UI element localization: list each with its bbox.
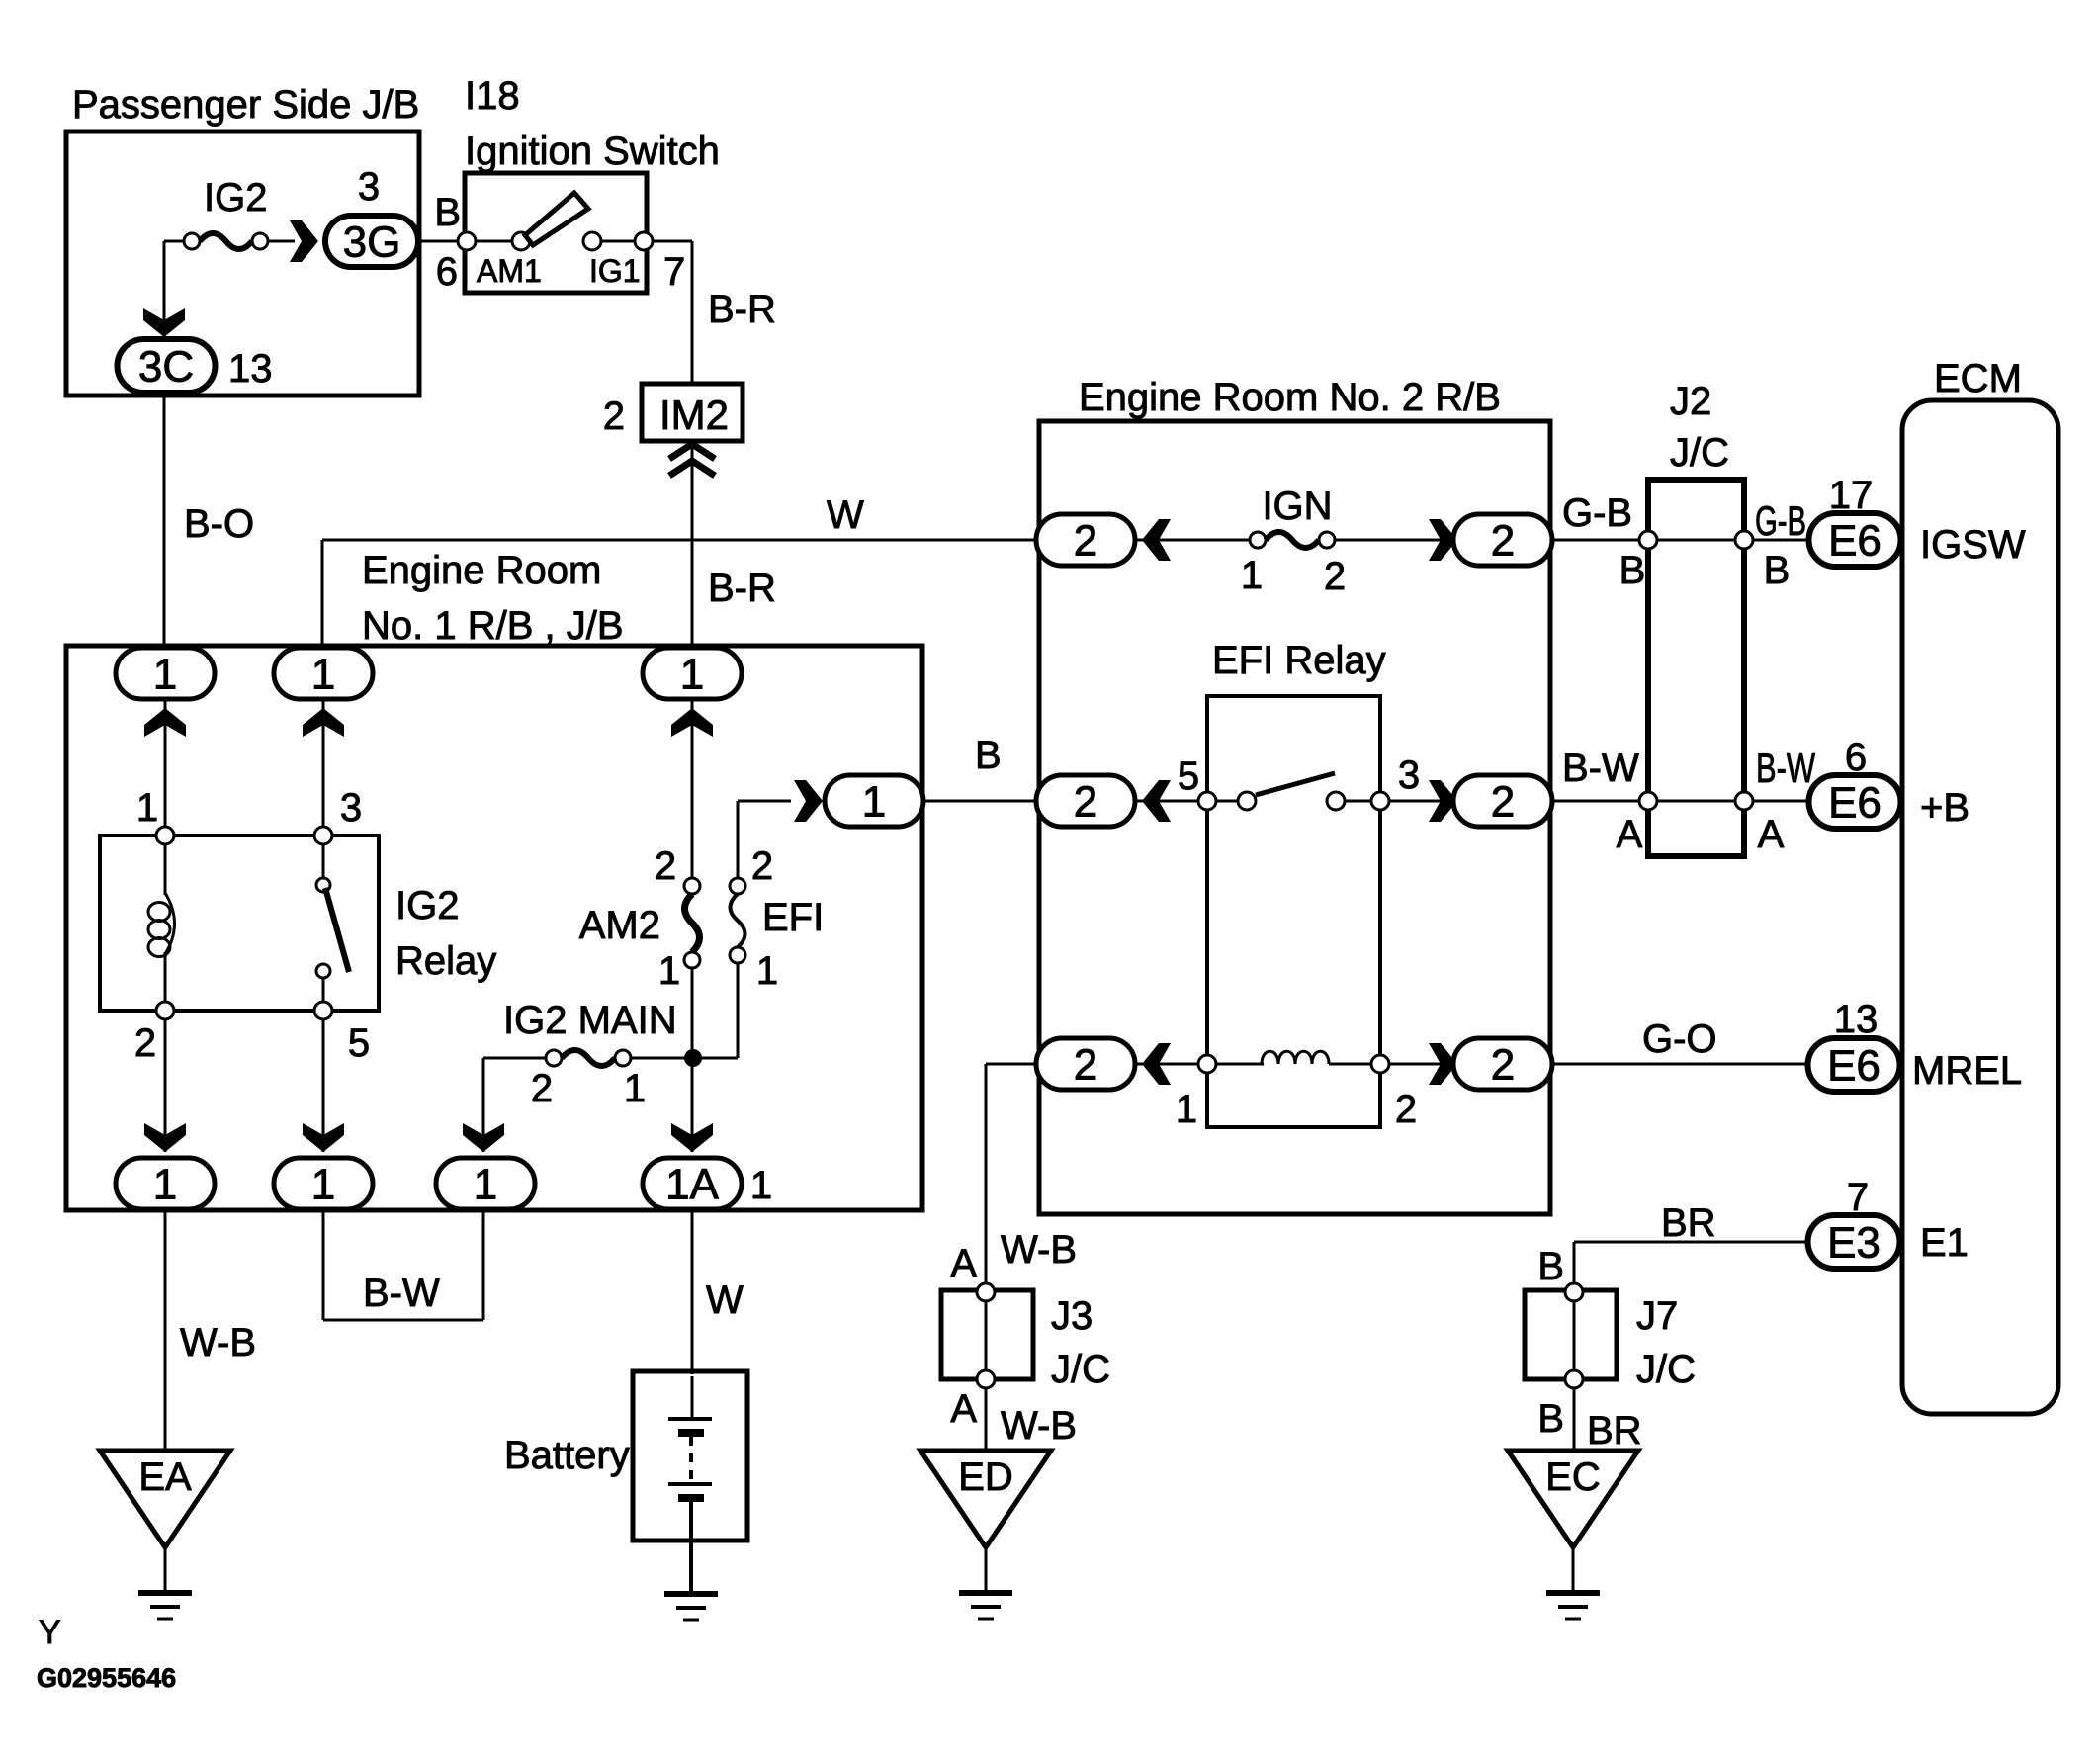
svg-text:1: 1 (756, 949, 778, 993)
svg-text:3: 3 (340, 786, 362, 830)
svg-text:13: 13 (1834, 998, 1879, 1041)
svg-text:6: 6 (436, 250, 458, 294)
svg-text:1: 1 (136, 786, 158, 830)
svg-text:W-B: W-B (1001, 1228, 1077, 1272)
svg-text:G-O: G-O (1642, 1017, 1717, 1061)
svg-text:MREL: MREL (1912, 1049, 2022, 1093)
svg-text:B-W: B-W (1562, 747, 1639, 790)
svg-text:7: 7 (663, 250, 685, 294)
svg-text:AM1: AM1 (477, 253, 542, 289)
svg-text:2: 2 (1324, 555, 1346, 598)
svg-text:1: 1 (153, 1161, 177, 1209)
svg-text:B: B (434, 191, 461, 234)
svg-text:IGN: IGN (1262, 484, 1332, 528)
svg-text:ED: ED (958, 1455, 1013, 1499)
svg-text:W-B: W-B (1001, 1404, 1077, 1448)
svg-text:IG1: IG1 (589, 253, 641, 289)
svg-text:2: 2 (1074, 517, 1097, 566)
svg-text:BR: BR (1587, 1409, 1642, 1453)
svg-text:W: W (706, 1278, 744, 1322)
svg-text:EC: EC (1545, 1455, 1601, 1499)
svg-text:No. 1 R/B , J/B: No. 1 R/B , J/B (362, 604, 624, 648)
svg-text:B: B (1764, 549, 1791, 592)
svg-text:2: 2 (531, 1067, 553, 1110)
svg-text:2: 2 (1491, 778, 1515, 827)
svg-text:2: 2 (1491, 517, 1515, 566)
svg-text:I18: I18 (465, 74, 520, 118)
svg-text:J/C: J/C (1670, 431, 1729, 475)
svg-text:3: 3 (1398, 753, 1420, 797)
svg-text:1: 1 (311, 651, 335, 699)
svg-text:A: A (950, 1242, 977, 1285)
svg-text:J/C: J/C (1636, 1348, 1696, 1391)
svg-text:5: 5 (1178, 754, 1199, 798)
svg-text:1: 1 (311, 1161, 335, 1209)
svg-text:2: 2 (1491, 1041, 1515, 1090)
svg-text:2: 2 (1395, 1088, 1417, 1131)
svg-text:EA: EA (138, 1455, 192, 1499)
svg-text:B: B (1537, 1397, 1564, 1441)
svg-text:2: 2 (1074, 778, 1097, 827)
svg-text:1: 1 (658, 949, 680, 993)
svg-text:J2: J2 (1670, 380, 1711, 423)
svg-text:1: 1 (1241, 554, 1263, 597)
svg-text:1A: 1A (665, 1161, 719, 1209)
svg-text:B-O: B-O (184, 502, 254, 546)
svg-text:Engine Room No. 2 R/B: Engine Room No. 2 R/B (1079, 376, 1501, 419)
svg-text:J/C: J/C (1051, 1348, 1110, 1391)
svg-text:ECM: ECM (1934, 357, 2022, 400)
svg-text:EFI Relay: EFI Relay (1212, 639, 1386, 682)
svg-text:2: 2 (655, 844, 676, 888)
svg-text:Y: Y (39, 1614, 61, 1651)
svg-text:3: 3 (358, 165, 380, 209)
svg-text:IG2: IG2 (204, 176, 267, 220)
svg-text:E6: E6 (1828, 779, 1881, 828)
svg-text:B-W: B-W (1756, 745, 1815, 791)
svg-text:W-B: W-B (180, 1321, 256, 1365)
svg-text:IG2: IG2 (395, 884, 459, 927)
svg-text:3G: 3G (343, 219, 401, 267)
svg-text:1: 1 (153, 651, 177, 699)
svg-text:EFI: EFI (762, 896, 824, 939)
svg-text:G-B: G-B (1755, 497, 1806, 544)
svg-text:1: 1 (474, 1161, 497, 1209)
svg-text:G02955646: G02955646 (37, 1663, 176, 1693)
svg-text:2: 2 (134, 1021, 156, 1065)
svg-text:Engine Room: Engine Room (362, 549, 601, 592)
svg-text:1: 1 (680, 651, 704, 699)
svg-text:1: 1 (750, 1164, 772, 1207)
svg-text:G-B: G-B (1562, 491, 1632, 535)
svg-text:E6: E6 (1827, 1042, 1881, 1091)
svg-text:B-W: B-W (363, 1272, 440, 1315)
svg-text:5: 5 (348, 1021, 370, 1065)
svg-text:2: 2 (751, 844, 773, 888)
svg-text:B: B (975, 734, 1002, 777)
svg-text:B-R: B-R (708, 288, 776, 331)
svg-text:1: 1 (1176, 1088, 1197, 1131)
svg-text:2: 2 (603, 395, 625, 438)
svg-text:2: 2 (1074, 1041, 1097, 1090)
svg-text:IM2: IM2 (659, 392, 729, 438)
svg-text:IG2 MAIN: IG2 MAIN (503, 999, 677, 1042)
svg-text:E1: E1 (1920, 1221, 1969, 1265)
svg-text:Battery: Battery (504, 1434, 630, 1477)
svg-text:E6: E6 (1828, 517, 1881, 566)
svg-text:A: A (950, 1387, 977, 1431)
svg-text:B: B (1619, 549, 1646, 592)
svg-text:IGSW: IGSW (1920, 523, 2026, 567)
svg-text:+B: +B (1920, 786, 1969, 830)
svg-text:Passenger Side J/B: Passenger Side J/B (72, 83, 419, 127)
svg-text:E3: E3 (1827, 1219, 1881, 1268)
svg-text:13: 13 (228, 347, 273, 391)
svg-text:Relay: Relay (395, 939, 496, 983)
svg-text:B: B (1537, 1245, 1564, 1288)
svg-text:A: A (1758, 813, 1785, 856)
svg-text:1: 1 (624, 1067, 646, 1110)
svg-text:J3: J3 (1051, 1294, 1093, 1338)
svg-text:W: W (827, 493, 864, 537)
svg-text:BR: BR (1661, 1201, 1716, 1245)
svg-text:B-R: B-R (708, 567, 776, 610)
svg-text:A: A (1617, 813, 1643, 856)
svg-text:AM2: AM2 (579, 904, 660, 947)
svg-text:3C: 3C (138, 343, 194, 392)
svg-text:Ignition Switch: Ignition Switch (465, 130, 720, 173)
svg-text:J7: J7 (1636, 1294, 1678, 1338)
svg-text:1: 1 (862, 778, 886, 827)
